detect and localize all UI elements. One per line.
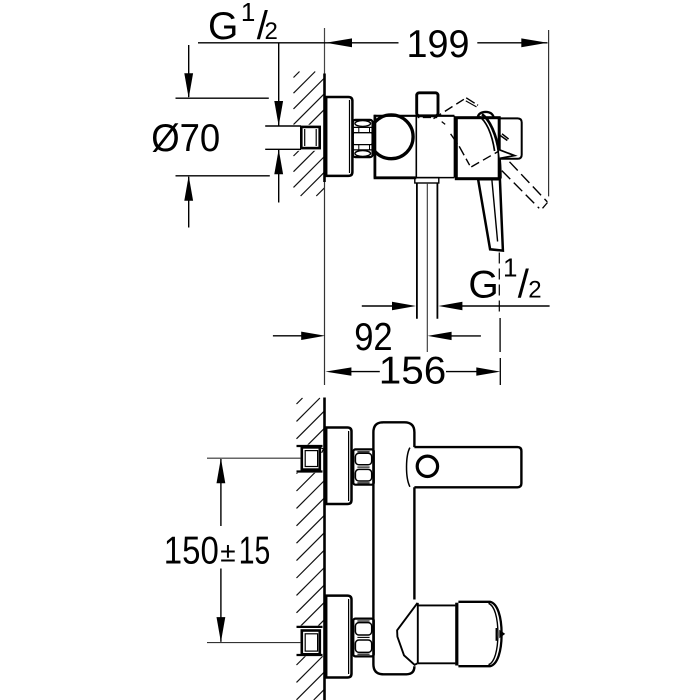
faucet body (lower view): [413, 487, 415, 599]
pipe center line: [426, 183, 428, 352]
G1/2 pipe dimension arrows: [362, 305, 394, 307]
small double marks above wedge: [500, 136, 507, 141]
tick marks under top edge: [418, 116, 420, 118]
hatch masks at unions (lower view): [296, 445, 324, 473]
handle neck outer curve: [482, 114, 500, 178]
O70 arrow line top: [188, 45, 190, 97]
lever wedge pointing right: [499, 150, 515, 159]
svg-text:1: 1: [241, 0, 255, 27]
ball joint (top view): [369, 115, 413, 159]
dimension 92: [273, 335, 302, 337]
handle cap bump above block: [478, 112, 494, 118]
svg-text:199: 199: [407, 23, 470, 66]
G1/2 pointer vertical (top left): [278, 43, 280, 126]
arrowhead up at pipe bottom edge: [274, 149, 283, 174]
upper square union behind wall: [302, 447, 320, 469]
knob cap inner arc: [489, 603, 498, 664]
aerator circle on arm: [417, 456, 437, 476]
handle neck inner curve: [479, 116, 494, 151]
handle grip (top view): [478, 179, 503, 250]
svg-text:2: 2: [528, 276, 541, 303]
lower square union behind wall: [302, 631, 320, 655]
lower escutcheon flange (lower view): [326, 596, 351, 678]
hatch mask at supply union (top view): [293, 125, 324, 151]
upper hex nut (lower view): [353, 449, 374, 484]
arrowhead 199 right: [521, 38, 547, 47]
O70 extent line bottom: [176, 175, 270, 177]
svg-text:G: G: [468, 263, 498, 306]
wall line (top view): [324, 28, 326, 74]
dimension 156: [325, 367, 351, 375]
svg-text:Ø70: Ø70: [151, 117, 220, 160]
dashed alternate handle position: [434, 98, 548, 209]
cylinder 2 / knob: [458, 602, 501, 666]
arrowhead 199 left: [326, 38, 352, 47]
cylinder 1: [418, 603, 456, 664]
dimension 199 line right part: [477, 42, 547, 44]
cartridge block (top view): [456, 118, 499, 179]
svg-text:±: ±: [220, 537, 235, 568]
svg-text:1: 1: [503, 253, 517, 283]
pipe collar under body (top view): [415, 178, 439, 183]
dimension 150+-15: [207, 457, 300, 459]
upper union pipe stubs behind wall: [297, 445, 323, 447]
wall hatching (top view): [294, 72, 325, 197]
outlet block (top view): [499, 118, 522, 158]
middle block (top view): [453, 116, 455, 178]
svg-text:G: G: [208, 5, 238, 48]
svg-text:2: 2: [265, 18, 278, 45]
O70 extent line top: [176, 97, 269, 99]
top pipe block (top view): [417, 93, 438, 116]
svg-text:15: 15: [239, 530, 271, 573]
wall line (lower view): [323, 398, 326, 700]
svg-text:150: 150: [164, 530, 219, 573]
O70 arrow line bottom: [188, 177, 190, 228]
upper escutcheon flange (lower view): [326, 428, 351, 505]
escutcheon flange (top view): [326, 97, 352, 176]
square union behind wall (top view): [301, 127, 319, 148]
extension line right of 199: [548, 30, 550, 196]
arm fillet curve: [407, 448, 410, 487]
diverter cone (lower view): [397, 603, 417, 665]
dashed center line from grip to 156: [498, 253, 500, 317]
supply pipe lines behind wall (top view): [265, 125, 301, 127]
lower union pipe stubs behind wall: [297, 626, 323, 628]
down pipe (top view): [416, 183, 418, 319]
valve body (top view): [373, 115, 376, 178]
knob notch: [495, 628, 497, 641]
spout arm (lower view): [414, 447, 521, 487]
bold ring: [455, 603, 458, 666]
lower hex nut (lower view): [353, 619, 374, 657]
svg-text:156: 156: [379, 349, 447, 392]
wall hatching (lower view): [297, 398, 325, 700]
hex nut (top view): [353, 120, 373, 157]
G1/2 label line: [198, 42, 399, 44]
arrowhead down at pipe top edge: [274, 101, 283, 126]
